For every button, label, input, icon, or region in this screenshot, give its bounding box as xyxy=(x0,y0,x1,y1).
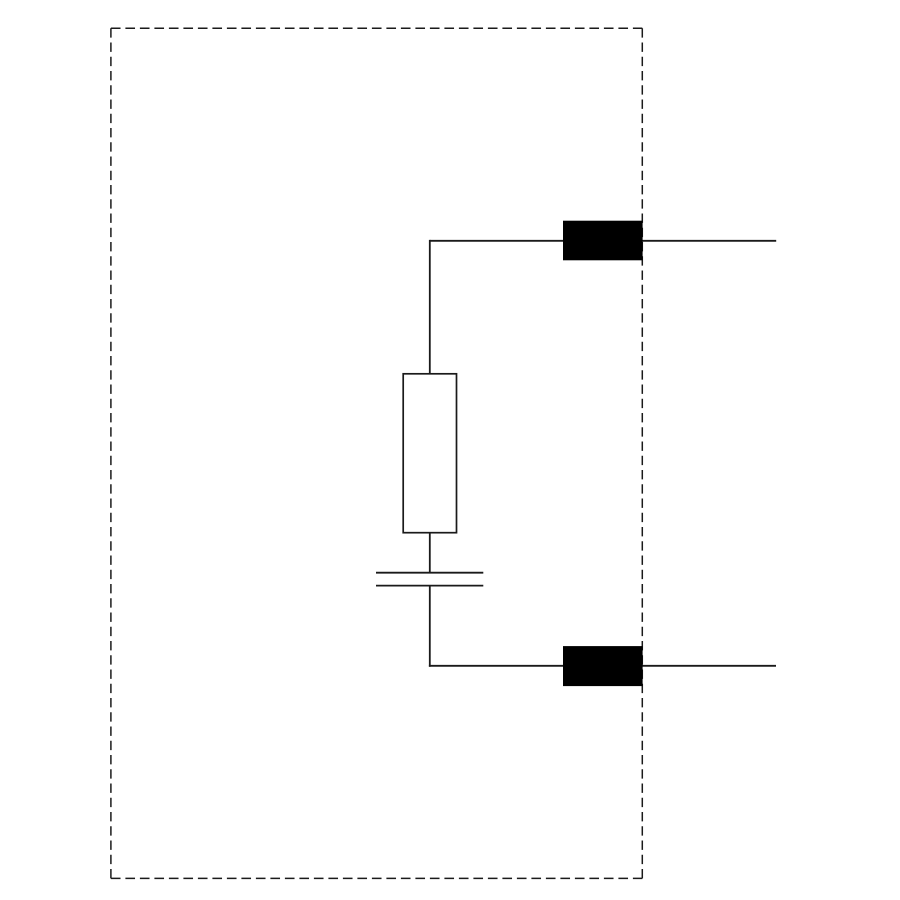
terminal pad 1 (top black rectangle) xyxy=(563,221,643,261)
dashed box right edge xyxy=(641,28,643,878)
wire: resistor to capacitor xyxy=(429,533,431,573)
wire: capacitor to bottom elbow xyxy=(429,586,431,667)
resistor R1 (rectangle body) xyxy=(403,374,456,533)
capacitor C1 top plate xyxy=(376,572,483,574)
terminal pad 2 (bottom black rectangle) xyxy=(563,646,643,686)
dashed box bottom edge xyxy=(111,877,642,879)
wire: top horizontal lead xyxy=(430,240,776,242)
dashed box top edge xyxy=(111,27,642,29)
wire: top vertical segment xyxy=(429,240,431,374)
dashed box left edge xyxy=(110,28,112,878)
wire: bottom horizontal lead xyxy=(429,665,776,667)
capacitor C1 bottom plate xyxy=(376,585,483,587)
